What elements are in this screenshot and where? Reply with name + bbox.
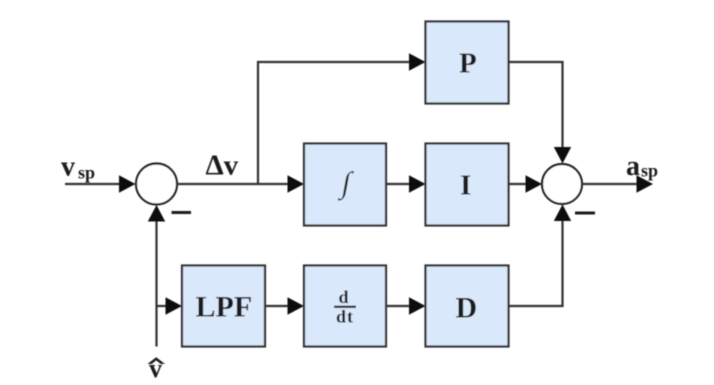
block d/dt	[304, 266, 386, 347]
arrowhead up into S1	[148, 205, 165, 222]
wire d/dt to D	[386, 305, 411, 307]
svg-text:LPF: LPF	[196, 290, 253, 323]
wire I to S2	[509, 183, 528, 185]
output arrowhead	[637, 175, 654, 192]
arrowhead into left summer	[119, 175, 136, 192]
label v_sp	[61, 151, 95, 182]
svg-text:v: v	[149, 354, 162, 383]
arrowhead into P	[409, 53, 426, 70]
minus sign at S1	[172, 211, 192, 214]
svg-text:d: d	[339, 287, 349, 307]
svg-text:Δv: Δv	[206, 150, 239, 182]
arrowhead into LPF	[166, 297, 183, 314]
minus sign at S2	[575, 212, 595, 215]
wire P output to S2	[509, 62, 563, 148]
wire output a_sp	[582, 183, 638, 185]
svg-text:sp: sp	[78, 162, 95, 182]
wire branch up to P	[258, 62, 410, 184]
block I	[426, 144, 509, 226]
wire vhat vertical into S1	[155, 221, 157, 347]
wire LPF to d/dt	[265, 305, 289, 307]
wire delta-v from S1 to integrator	[177, 183, 289, 185]
wire branch into LPF	[157, 305, 169, 307]
label a_sp	[626, 151, 658, 182]
arrowhead into I	[409, 175, 426, 192]
svg-text:I: I	[460, 170, 471, 202]
block LPF	[182, 266, 265, 347]
block D	[426, 266, 509, 347]
arrowhead into D	[409, 297, 426, 314]
block integrator	[304, 144, 386, 226]
block P	[426, 22, 509, 104]
svg-text:dt: dt	[336, 307, 354, 327]
wire vsp input	[65, 183, 120, 185]
wire D output to S2	[509, 220, 563, 306]
arrowhead up into S2	[554, 205, 571, 222]
svg-text:v: v	[61, 151, 75, 182]
svg-text:a: a	[626, 151, 640, 182]
svg-text:D: D	[456, 292, 478, 325]
summing junction S2	[542, 164, 582, 204]
summing junction S1	[136, 164, 177, 205]
label vhat	[147, 354, 165, 383]
arrowhead down into S2	[554, 147, 571, 164]
wire integrator to I	[386, 183, 411, 185]
arrowhead into S2 from left	[526, 175, 543, 192]
arrowhead into integrator	[288, 175, 305, 192]
svg-text:sp: sp	[641, 161, 658, 181]
label delta-v	[206, 150, 239, 182]
arrowhead into d/dt	[288, 297, 305, 314]
svg-text:P: P	[459, 48, 477, 80]
